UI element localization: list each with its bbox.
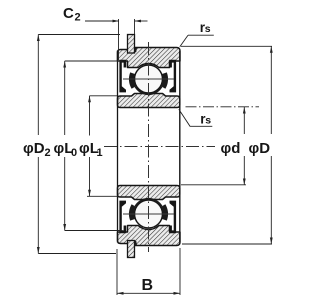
svg-text:2: 2: [45, 147, 51, 159]
svg-text:φD: φD: [249, 140, 271, 157]
svg-text:φD: φD: [23, 140, 45, 157]
svg-text:C: C: [63, 5, 74, 22]
svg-text:2: 2: [75, 12, 81, 24]
svg-text:B: B: [142, 277, 154, 294]
svg-text:1: 1: [97, 147, 103, 159]
svg-text:s: s: [205, 23, 211, 35]
svg-text:s: s: [205, 115, 211, 127]
svg-text:0: 0: [71, 147, 77, 159]
svg-text:φd: φd: [221, 140, 241, 157]
